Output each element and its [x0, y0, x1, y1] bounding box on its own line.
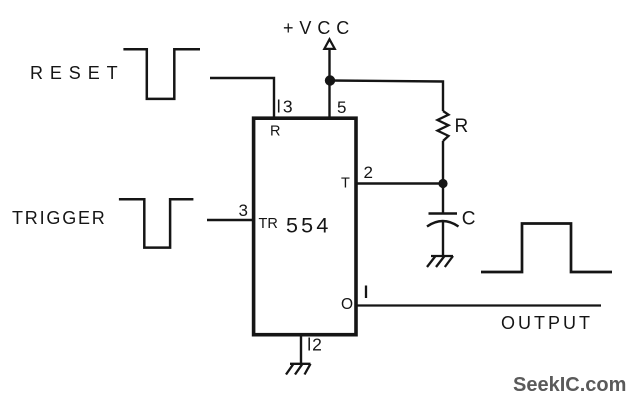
- svg-text:T: T: [341, 176, 350, 192]
- svg-text:3: 3: [239, 201, 248, 220]
- svg-text:554: 554: [286, 213, 331, 237]
- svg-text:l3: l3: [277, 97, 295, 117]
- svg-text:C: C: [462, 209, 476, 230]
- svg-text:5: 5: [337, 98, 346, 117]
- svg-text:R: R: [270, 124, 280, 140]
- svg-text:O: O: [341, 296, 353, 313]
- svg-text:l2: l2: [307, 335, 323, 355]
- svg-text:RESET: RESET: [30, 63, 125, 83]
- svg-text:+VCC: +VCC: [283, 18, 355, 38]
- svg-text:OUTPUT: OUTPUT: [501, 313, 593, 333]
- svg-text:TR: TR: [259, 216, 278, 232]
- svg-text:SeekIC.com: SeekIC.com: [513, 374, 626, 396]
- svg-text:TRIGGER: TRIGGER: [12, 208, 107, 228]
- svg-text:R: R: [455, 116, 469, 137]
- svg-text:2: 2: [364, 163, 373, 182]
